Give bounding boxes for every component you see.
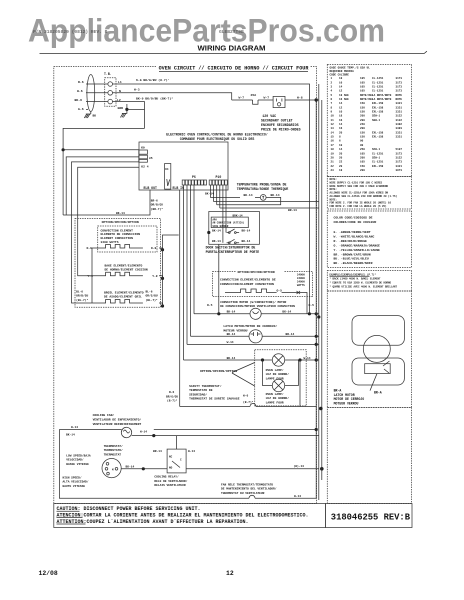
svg-text:20: 20 bbox=[339, 165, 343, 168]
svg-text:250: 250 bbox=[360, 148, 365, 151]
svg-text:DE MANTENIMIENTO DEL VENTILADO: DE MANTENIMIENTO DEL VENTILADOR/ bbox=[221, 487, 277, 491]
svg-text:FAN RELE THERMOSTAT/TERMOSTATO: FAN RELE THERMOSTAT/TERMOSTATO bbox=[221, 482, 273, 486]
svg-text:19: 19 bbox=[331, 152, 335, 155]
svg-text:105: 105 bbox=[360, 81, 365, 84]
svg-text:3173: 3173 bbox=[396, 86, 403, 89]
svg-text:18 SEE: 18 SEE bbox=[339, 94, 349, 97]
fan relay thermostat caption bbox=[221, 482, 277, 494]
svg-text:BR. -BROWN/CAFE/BRUN: BR. -BROWN/CAFE/BRUN bbox=[334, 252, 371, 256]
svg-text:COLORES/CODE DE COULEUR: COLORES/CODE DE COULEUR bbox=[334, 220, 377, 224]
svg-text:NOTE: NOTE bbox=[396, 98, 403, 101]
junction under terminal block bbox=[125, 108, 128, 111]
svg-text:11: 11 bbox=[331, 119, 335, 122]
svg-text:LOW SPEED/BAJA: LOW SPEED/BAJA bbox=[66, 453, 91, 457]
svg-text:LA NOTA/NOTE: LA NOTA/NOTE bbox=[372, 97, 392, 101]
wire thermostat to relay bbox=[132, 435, 319, 437]
svg-text:ENCHUFE SECUNDARIOS: ENCHUFE SECUNDARIOS bbox=[261, 123, 299, 127]
svg-text:BK-6: BK-6 bbox=[75, 98, 83, 102]
wire N run bbox=[113, 93, 232, 100]
svg-text:BK-9 BK/O/BU (BK-7)*: BK-9 BK/O/BU (BK-7)* bbox=[136, 96, 173, 100]
svg-text:SFW-1: SFW-1 bbox=[372, 148, 380, 151]
svg-text:(B-7)*: (B-7)* bbox=[167, 399, 178, 403]
svg-text:CL-1251: CL-1251 bbox=[372, 152, 384, 155]
terminal L1 bbox=[108, 82, 113, 87]
door switch contact 1 bbox=[207, 231, 210, 234]
wire L1 run bbox=[113, 84, 310, 100]
svg-text:3382: 3382 bbox=[396, 123, 403, 126]
svg-text:VENTILADOR DE ENFRIAMIENTO/: VENTILADOR DE ENFRIAMIENTO/ bbox=[93, 417, 142, 421]
svg-text:3321: 3321 bbox=[396, 136, 403, 139]
svg-text:GRD: GRD bbox=[118, 106, 124, 110]
latch motor lower wire bbox=[187, 343, 319, 345]
svg-text:105: 105 bbox=[360, 86, 365, 89]
svg-text:PUERTA/INTERRUPTEUR DE PORTE: PUERTA/INTERRUPTEUR DE PORTE bbox=[206, 250, 260, 254]
table rows bbox=[331, 77, 403, 172]
svg-text:12/08: 12/08 bbox=[39, 570, 58, 577]
svg-text:OVEN CIRCUIT // CIRCUITO DE HO: OVEN CIRCUIT // CIRCUITO DE HORNO // CIR… bbox=[159, 65, 310, 71]
wire bundle from P10 pins bbox=[211, 185, 241, 314]
svg-text:* QUARD UTILISE AVEC 4000 W. E: * QUARD UTILISE AVEC 4000 W. ELEMENT BRI… bbox=[330, 285, 398, 288]
latch cam bbox=[365, 364, 391, 374]
convection motor wire bbox=[194, 313, 319, 315]
EOC box bbox=[139, 142, 228, 190]
svg-text:6-G BK/G/BU (8.7)': 6-G BK/G/BU (8.7)' bbox=[136, 78, 170, 82]
svg-text:200: 200 bbox=[360, 169, 365, 172]
svg-text:ATENCION:CORTAR LA CORIENTE AN: ATENCION:CORTAR LA CORIENTE ANTES DE REA… bbox=[57, 513, 309, 519]
relay coil drop bbox=[186, 468, 319, 470]
wires EOC to bus bbox=[214, 202, 319, 208]
svg-text:BK-14: BK-14 bbox=[205, 193, 214, 196]
svg-text:18: 18 bbox=[339, 169, 343, 172]
wire L2 run bbox=[113, 102, 145, 129]
svg-text:BRK-14: BRK-14 bbox=[233, 215, 243, 218]
svg-text:CONVECCION/ELEMENT CONVECTION: CONVECCION/ELEMENT CONVECTION bbox=[220, 282, 274, 286]
svg-text:35: 35 bbox=[149, 157, 153, 160]
lamp feed wire bbox=[184, 359, 319, 361]
svg-text:THERMOSTAT DE SURETE SAUVAGE: THERMOSTAT DE SURETE SAUVAGE bbox=[189, 398, 240, 401]
svg-text:3122: 3122 bbox=[396, 156, 403, 159]
svg-text:TEMPERATURA/SONDE THERMIQUE: TEMPERATURA/SONDE THERMIQUE bbox=[237, 187, 289, 191]
svg-text:ELB OUT: ELB OUT bbox=[144, 186, 157, 190]
caution text bbox=[57, 506, 309, 525]
wire from GRD junction bbox=[127, 108, 145, 110]
svg-text:MOTEUR VERROU: MOTEUR VERROU bbox=[334, 402, 359, 406]
thermostat caption bbox=[104, 444, 123, 456]
svg-text:DE ASADO/ELEMENT GRIL: DE ASADO/ELEMENT GRIL bbox=[104, 295, 142, 299]
svg-text:W-14: W-14 bbox=[71, 426, 78, 429]
latch motor body lower bbox=[352, 358, 404, 385]
svg-text:SEW-1: SEW-1 bbox=[372, 119, 380, 122]
oven lamp 1 bbox=[272, 354, 284, 366]
svg-text:BR/G/GU: BR/G/GU bbox=[166, 394, 178, 398]
svg-text:W-3: W-3 bbox=[134, 88, 140, 92]
svg-text:P10: P10 bbox=[216, 175, 222, 179]
svg-text:SIDE BURNER: SIDE BURNER bbox=[213, 225, 229, 228]
convection element inner option box bbox=[98, 226, 157, 252]
svg-text:318046255 REV:B: 318046255 REV:B bbox=[331, 513, 411, 523]
svg-text:GLEB27T9B: GLEB27T9B bbox=[219, 29, 244, 35]
svg-text:120 VAC: 120 VAC bbox=[262, 114, 276, 118]
svg-text:LA NOTA/NOTE: LA NOTA/NOTE bbox=[372, 93, 392, 97]
svg-text:ELEMENTO DE CONVECCION: ELEMENTO DE CONVECCION bbox=[101, 233, 141, 236]
svg-text:200: 200 bbox=[360, 127, 365, 130]
svg-text:18: 18 bbox=[331, 148, 335, 151]
circuit title bbox=[157, 63, 310, 71]
svg-text:14: 14 bbox=[339, 86, 343, 89]
svg-text:RELAIS VENTILATEUR: RELAIS VENTILATEUR bbox=[154, 484, 185, 487]
svg-text:BK-14: BK-14 bbox=[244, 194, 253, 197]
svg-text:BK. -BLACK/NEGRO/NOIR: BK. -BLACK/NEGRO/NOIR bbox=[334, 261, 373, 265]
svg-text:3073: 3073 bbox=[396, 169, 403, 172]
secondary outlet bbox=[273, 96, 285, 107]
bus corner links bbox=[154, 429, 316, 431]
svg-text:OPTION/OPCION/OPTION: OPTION/OPCION/OPTION bbox=[102, 220, 139, 224]
svg-text:200: 200 bbox=[360, 119, 365, 122]
latch motor box bbox=[327, 291, 411, 408]
svg-text:20: 20 bbox=[331, 156, 335, 159]
svg-text:16: 16 bbox=[331, 140, 335, 143]
svg-text:K2 4: K2 4 bbox=[141, 166, 148, 169]
svg-text:22: 22 bbox=[331, 165, 335, 168]
svg-text:MOTEUR VERROU: MOTEUR VERROU bbox=[223, 329, 247, 333]
convection element out wire bbox=[282, 291, 307, 314]
svg-text:12: 12 bbox=[226, 570, 234, 577]
supply wire labels bbox=[75, 80, 84, 111]
svg-text:HIGH SPEED/: HIGH SPEED/ bbox=[63, 475, 82, 479]
supply wires into terminal block bbox=[86, 84, 108, 114]
svg-text:3173: 3173 bbox=[396, 77, 403, 80]
relay K4 bbox=[165, 164, 171, 190]
svg-text:(BR-7)*: (BR-7)* bbox=[151, 207, 163, 211]
svg-text:G. -GREEN/VERDE/VERT: G. -GREEN/VERDE/VERT bbox=[334, 230, 371, 234]
wire to fuse bbox=[232, 99, 253, 101]
svg-text:THERMOSTAT DU VENTILATEUR: THERMOSTAT DU VENTILATEUR bbox=[221, 492, 265, 495]
svg-text:ALTA VELOCIDAD/: ALTA VELOCIDAD/ bbox=[63, 480, 89, 484]
svg-text:LUZ DE HORNO/: LUZ DE HORNO/ bbox=[266, 372, 290, 376]
cooling loop wire top bbox=[59, 429, 121, 431]
junction left drop bbox=[62, 148, 65, 151]
lamps option box bbox=[255, 350, 307, 406]
svg-text:BK-14: BK-14 bbox=[212, 229, 221, 232]
convection heater middle bbox=[225, 289, 277, 293]
svg-text:LUZ DE HORNO/: LUZ DE HORNO/ bbox=[266, 396, 290, 400]
svg-text:23: 23 bbox=[331, 169, 335, 172]
cooling fan motor bbox=[102, 459, 121, 478]
svg-text:3383: 3383 bbox=[396, 127, 403, 130]
svg-text:BK-14: BK-14 bbox=[66, 433, 75, 436]
svg-text:HAUTE VITESSE: HAUTE VITESSE bbox=[63, 485, 86, 488]
svg-text:T.B.: T.B. bbox=[104, 72, 112, 76]
svg-text:200: 200 bbox=[360, 156, 365, 159]
svg-text:BK-14: BK-14 bbox=[242, 240, 251, 243]
schematic frame bbox=[54, 67, 317, 504]
svg-text:* EQUATE TO USA 3200 W. ELEMEN: * EQUATE TO USA 3200 W. ELEMENTO DE HORN… bbox=[330, 281, 392, 284]
svg-text:P6: P6 bbox=[192, 175, 196, 179]
svg-text:TEMPERATURE PROBE/SONDA DE: TEMPERATURE PROBE/SONDA DE bbox=[237, 183, 287, 187]
svg-text:O. -ORANGE/NARANJA/ORANGE: O. -ORANGE/NARANJA/ORANGE bbox=[334, 244, 381, 248]
cooling fan caption bbox=[93, 413, 142, 426]
svg-text:ELECTRONIC OVEN CONTROL/CONTRO: ELECTRONIC OVEN CONTROL/CONTROL DE HORNO… bbox=[166, 133, 267, 137]
terminal labels bbox=[117, 80, 123, 110]
svg-text:BROIL ELEMENT/ELEMENTO: BROIL ELEMENT/ELEMENTO bbox=[104, 291, 144, 295]
ratings box bbox=[327, 271, 411, 292]
svg-text:PRIZE DE MICRO-ONDES: PRIZE DE MICRO-ONDES bbox=[261, 128, 301, 132]
svg-text:12: 12 bbox=[339, 106, 343, 109]
svg-text:DOOR SWITCH/INTERRUPTOR DE: DOOR SWITCH/INTERRUPTOR DE bbox=[206, 246, 256, 250]
svg-text:Y-8: Y-8 bbox=[152, 275, 158, 278]
svg-text:10: 10 bbox=[339, 144, 343, 147]
convection motor bbox=[250, 308, 261, 319]
lower empty box bbox=[327, 408, 411, 504]
svg-text:(BL-7)*: (BL-7)* bbox=[146, 298, 158, 302]
svg-text:3321: 3321 bbox=[396, 131, 403, 134]
terminal L2 bbox=[108, 99, 113, 104]
svg-text:14: 14 bbox=[339, 123, 343, 126]
svg-text:16: 16 bbox=[339, 127, 343, 130]
svg-text:EXL-158: EXL-158 bbox=[372, 131, 384, 134]
svg-text:14: 14 bbox=[339, 102, 343, 105]
svg-text:K9: K9 bbox=[141, 146, 145, 149]
wire EOC left feeder 1 bbox=[66, 157, 139, 215]
svg-text:CODE CALIBRE: CODE CALIBRE bbox=[330, 73, 350, 76]
svg-text:BK-14: BK-14 bbox=[271, 194, 280, 197]
latch motor rotor bbox=[363, 335, 390, 362]
latch motor body upper bbox=[352, 316, 404, 346]
svg-text:OPTION/OPCION/OPTION: OPTION/OPCION/OPTION bbox=[238, 270, 275, 274]
svg-text:W-14: W-14 bbox=[188, 450, 195, 453]
svg-text:105: 105 bbox=[360, 161, 365, 164]
supply cable sheath bbox=[87, 75, 95, 112]
svg-text:150: 150 bbox=[360, 131, 365, 134]
svg-text:SEW-1: SEW-1 bbox=[372, 156, 380, 159]
svg-text:3173: 3173 bbox=[396, 161, 403, 164]
cooling relay box bbox=[167, 449, 186, 473]
svg-text:3173: 3173 bbox=[396, 81, 403, 84]
svg-text:BK-14: BK-14 bbox=[212, 240, 221, 243]
svg-text:L1: L1 bbox=[118, 80, 122, 84]
high speed caption bbox=[63, 475, 89, 487]
svg-text:BR-14: BR-14 bbox=[286, 333, 295, 336]
svg-text:240: 240 bbox=[360, 123, 365, 126]
gap junctions bbox=[317, 315, 320, 318]
broil element labels left bbox=[76, 290, 88, 301]
svg-text:OR/B/GU: OR/B/GU bbox=[151, 203, 163, 207]
svg-text:3321: 3321 bbox=[396, 165, 403, 168]
svg-text:OR/B/GU: OR/B/GU bbox=[76, 294, 88, 298]
svg-text:W-14: W-14 bbox=[304, 357, 311, 360]
svg-text:CL-1251: CL-1251 bbox=[372, 161, 384, 164]
svg-text:EXL-158: EXL-158 bbox=[372, 165, 384, 168]
svg-text:BK-14: BK-14 bbox=[126, 466, 135, 469]
convection element option box bbox=[75, 219, 161, 308]
svg-text:OPTION/OPCION/OPTION: OPTION/OPCION/OPTION bbox=[200, 369, 237, 373]
svg-text:OR/G/BU: OR/G/BU bbox=[146, 294, 158, 298]
svg-text:25A: 25A bbox=[251, 93, 257, 97]
svg-text:WIRE SUPPLY SEW FOR 200 C USED: WIRE SUPPLY SEW FOR 200 C USED W/GROUND bbox=[330, 185, 389, 188]
svg-text:W-6: W-6 bbox=[243, 394, 248, 397]
svg-text:EXL-158: EXL-158 bbox=[372, 106, 384, 109]
svg-text:14: 14 bbox=[331, 131, 335, 134]
svg-text:17: 17 bbox=[331, 144, 335, 147]
svg-text:BK: BK bbox=[93, 115, 97, 118]
caution box bbox=[54, 504, 326, 528]
svg-text:EXL-158: EXL-158 bbox=[372, 102, 384, 105]
svg-text:105: 105 bbox=[360, 90, 365, 93]
latch motor bbox=[249, 330, 262, 343]
svg-text:3321: 3321 bbox=[396, 102, 403, 105]
wire lamp rail drop bbox=[299, 360, 301, 407]
wire EOC left feeder 3 bbox=[78, 167, 139, 276]
svg-text:TERMOSTATO DE: TERMOSTATO DE bbox=[189, 389, 213, 392]
svg-text:O-5: O-5 bbox=[207, 304, 213, 307]
svg-text:NOTE: NOTE bbox=[396, 94, 403, 97]
svg-text:10: 10 bbox=[339, 111, 343, 114]
svg-text:R-6: R-6 bbox=[169, 391, 174, 394]
part number box bbox=[326, 504, 412, 528]
svg-text:FOR NOTE 2. FOR FAN LA WHOLE 2: FOR NOTE 2. FOR FAN LA WHOLE 20 (5 25) bbox=[330, 205, 388, 208]
svg-text:W. -WHITE/BLANCO/BLANC: W. -WHITE/BLANCO/BLANC bbox=[334, 235, 375, 239]
svg-text:BL-6: BL-6 bbox=[146, 290, 153, 293]
svg-text:CONVECTION ELEMENT/ELEMENTO DE: CONVECTION ELEMENT/ELEMENTO DE bbox=[220, 277, 276, 281]
svg-text:BAKE ELEMENT/ELEMENTO: BAKE ELEMENT/ELEMENTO bbox=[105, 263, 143, 267]
svg-text:16: 16 bbox=[339, 81, 343, 84]
svg-text:12: 12 bbox=[331, 123, 335, 126]
latch motor caption bbox=[334, 388, 365, 405]
broil element heater bbox=[92, 300, 143, 304]
svg-text:BK-14: BK-14 bbox=[227, 333, 236, 336]
svg-text:W-8: W-8 bbox=[297, 95, 303, 99]
svg-text:90: 90 bbox=[360, 140, 364, 143]
svg-text:13: 13 bbox=[331, 127, 335, 130]
svg-text:BL-6: BL-6 bbox=[76, 290, 83, 293]
svg-text:(BL-7)*: (BL-7)* bbox=[76, 298, 88, 302]
svg-text:BR-A: BR-A bbox=[334, 388, 342, 392]
svg-text:150: 150 bbox=[360, 165, 365, 168]
svg-text:ELEMENT CONVECTION: ELEMENT CONVECTION bbox=[101, 237, 134, 240]
wire fuse to outlet bbox=[258, 99, 273, 101]
wire gauge table box bbox=[327, 65, 411, 177]
svg-text:OVEN LAMP/: OVEN LAMP/ bbox=[266, 392, 284, 396]
svg-text:CL-1251: CL-1251 bbox=[372, 86, 384, 89]
svg-text:EXL-158: EXL-158 bbox=[372, 136, 384, 139]
svg-text:DE CONVECCION/MOTEUR VENTILATE: DE CONVECCION/MOTEUR VENTILATEUR CONVECT… bbox=[220, 304, 295, 308]
header rule bbox=[40, 51, 427, 53]
svg-text:NC: NC bbox=[169, 455, 173, 458]
svg-text:W-14: W-14 bbox=[140, 430, 147, 433]
svg-text:W-14: W-14 bbox=[227, 341, 234, 344]
cooling relay caption bbox=[154, 475, 187, 487]
svg-text:(W)-14: (W)-14 bbox=[294, 464, 305, 468]
svg-text:O-8: O-8 bbox=[151, 247, 157, 250]
svg-text:15: 15 bbox=[331, 136, 335, 139]
svg-text:20: 20 bbox=[339, 152, 343, 155]
svg-text:18: 18 bbox=[339, 77, 343, 80]
left drop wire bbox=[63, 128, 144, 215]
wire outlet to bus bbox=[285, 99, 319, 101]
wire bundle from P6 pins bbox=[184, 185, 195, 360]
svg-text:OVEN LAMP/: OVEN LAMP/ bbox=[266, 368, 284, 372]
svg-text:R-6: R-6 bbox=[78, 80, 84, 84]
svg-text:150: 150 bbox=[360, 136, 365, 139]
svg-text:BU. -BLUE/AZUL/BLEU: BU. -BLUE/AZUL/BLEU bbox=[334, 257, 369, 261]
svg-text:NO: NO bbox=[169, 466, 173, 469]
latch motor wire bbox=[191, 335, 319, 337]
svg-text:GAGE GAUGE TEMP./S GSA UL: GAGE GAUGE TEMP./S GSA UL bbox=[330, 66, 371, 70]
svg-text:18: 18 bbox=[339, 115, 343, 118]
svg-text:SEGURIDAD/: SEGURIDAD/ bbox=[189, 392, 207, 396]
svg-text:WIRING DIAGRAM: WIRING DIAGRAM bbox=[198, 43, 266, 52]
ground chassis left bbox=[84, 114, 91, 118]
svg-text:VENTILATEUR REFROIDISSEMENT: VENTILATEUR REFROIDISSEMENT bbox=[93, 423, 142, 426]
wire motor to relay bbox=[121, 468, 167, 470]
svg-text:RELE DE VENTILADOR/: RELE DE VENTILADOR/ bbox=[154, 479, 187, 483]
svg-text:BR-6: BR-6 bbox=[151, 199, 158, 202]
safety thermostat wire bbox=[180, 404, 317, 407]
svg-text:3321: 3321 bbox=[396, 111, 403, 114]
svg-text:BK-14: BK-14 bbox=[282, 311, 291, 314]
terminal N bbox=[108, 91, 113, 96]
svg-text:O-5: O-5 bbox=[277, 290, 283, 293]
door switch inner text box bbox=[211, 217, 248, 228]
svg-text:* BACK (3400 4000 W. BAKE) ELE: * BACK (3400 4000 W. BAKE) ELEMENT bbox=[330, 277, 382, 280]
relay wire to bus bbox=[176, 436, 178, 450]
door switch box bbox=[209, 212, 260, 245]
svg-text:BR-A: BR-A bbox=[374, 391, 382, 395]
outlet caption bbox=[261, 114, 301, 132]
svg-text:20: 20 bbox=[339, 156, 343, 159]
svg-text:3400 WATTS: 3400 WATTS bbox=[101, 241, 119, 244]
svg-text:BK-14: BK-14 bbox=[227, 311, 236, 314]
svg-text:90: 90 bbox=[360, 144, 364, 147]
svg-text:BR-14: BR-14 bbox=[153, 450, 162, 453]
svg-text:EXL-158: EXL-158 bbox=[372, 111, 384, 114]
ground chassis right bbox=[120, 104, 127, 117]
svg-text:LATCH MOTOR: LATCH MOTOR bbox=[334, 393, 355, 397]
svg-text:CONVECTION MOTOR (W/CONVECTION: CONVECTION MOTOR (W/CONVECTION)/ MOTOR bbox=[220, 300, 286, 304]
svg-text:SECONDARY OUTLET: SECONDARY OUTLET bbox=[261, 119, 293, 123]
fan thermostat bbox=[121, 427, 131, 437]
svg-text:21: 21 bbox=[331, 161, 335, 164]
oven lamp 2 bbox=[272, 379, 284, 391]
svg-text:W-14: W-14 bbox=[294, 495, 301, 498]
svg-text:W-6: W-6 bbox=[77, 89, 83, 93]
low speed caption bbox=[66, 453, 91, 465]
svg-text:3173: 3173 bbox=[396, 90, 403, 93]
svg-text:BR-14: BR-14 bbox=[288, 209, 297, 212]
svg-text:12: 12 bbox=[339, 90, 343, 93]
svg-text:BASSE VITESSE: BASSE VITESSE bbox=[66, 463, 89, 466]
svg-text:TERMOSTATO/: TERMOSTATO/ bbox=[104, 448, 123, 452]
svg-text:COOLING RELAY/: COOLING RELAY/ bbox=[154, 475, 179, 479]
svg-text:CONVECTION ELEMENT: CONVECTION ELEMENT bbox=[101, 229, 134, 232]
element feed wires bbox=[92, 235, 179, 306]
svg-text:ALLOWED SEW CL-1251A 240 FOR G: ALLOWED SEW CL-1251A 240 FOR GROUND 20 (… bbox=[330, 195, 398, 198]
svg-text:150: 150 bbox=[360, 106, 365, 109]
svg-text:MOTOR DE CERROJO: MOTOR DE CERROJO bbox=[334, 397, 365, 401]
svg-text:R. -RED/ROJO/ROUGE: R. -RED/ROJO/ROUGE bbox=[334, 239, 368, 243]
svg-text:3122: 3122 bbox=[396, 119, 403, 122]
svg-text:THERMOSTAT: THERMOSTAT bbox=[104, 453, 122, 456]
svg-text:CL-1251: CL-1251 bbox=[372, 81, 384, 84]
svg-text:5107: 5107 bbox=[396, 148, 403, 151]
svg-text:105: 105 bbox=[360, 152, 365, 155]
svg-text:SEW-1: SEW-1 bbox=[372, 115, 380, 118]
svg-text:O-6: O-6 bbox=[87, 247, 93, 250]
svg-text:3122: 3122 bbox=[396, 115, 403, 118]
svg-text:K4: K4 bbox=[165, 168, 169, 171]
safety thermostat caption bbox=[189, 384, 240, 401]
svg-text:COLOR CODE/CODIGOS DE: COLOR CODE/CODIGOS DE bbox=[334, 216, 373, 220]
